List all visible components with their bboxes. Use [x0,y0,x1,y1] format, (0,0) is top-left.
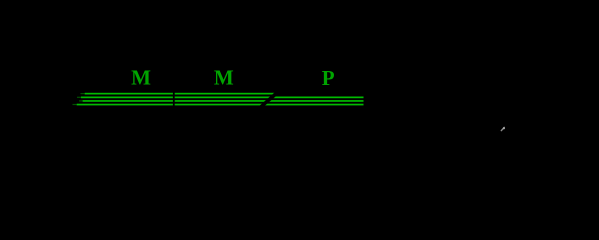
chromatid line 3 tail [79,100,83,101]
chromatid line 4 tail [73,104,77,105]
crossover slash gap between segment M and P [256,90,283,109]
stray gray tick mark [501,127,505,131]
chromatid line 4 (bottom strand) [77,104,364,106]
svg-text:M: M [214,66,234,90]
chromatid line 1 (top strand, ends at crossover) [85,93,276,95]
junction gap between segment M and M [173,90,175,107]
chromatid line 3 [83,100,364,102]
chromatid line 2 tail [77,97,81,98]
svg-text:P: P [322,66,335,90]
svg-text:M: M [131,66,151,90]
chromatid line 2 [81,97,364,99]
chromatid line 1 tail (faint left taper) [81,93,85,94]
